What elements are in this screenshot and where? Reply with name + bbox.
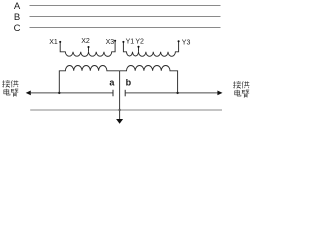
phase bus line A [30,5,221,7]
svg-text:B: B [14,12,20,23]
tap Y2 stub [138,47,140,52]
right feeder text 接供 [233,81,241,89]
junction dot left coil to feeder [58,92,60,94]
junction dot right coil to feeder [176,92,178,94]
ground arrow [116,119,123,124]
right feeder text 电臂 [235,90,241,96]
phase bus line C [30,27,221,29]
phase bus line B [30,16,221,18]
left feeder wire [30,92,113,94]
svg-text:Y2: Y2 [135,38,144,45]
right feeder wire [125,92,217,94]
terminal Y3 dot [178,40,180,42]
tap X2 dot [87,46,89,48]
svg-text:X3: X3 [106,39,115,46]
primary winding right section Y1-Y2-Y3 [123,41,178,56]
terminal X3 dot [114,40,116,42]
tap X2 stub [88,47,90,52]
secondary winding left section [59,66,119,93]
terminal a tick [112,90,114,97]
right feeder arrow [217,91,222,96]
svg-text:a: a [109,77,115,87]
svg-text:b: b [126,77,132,87]
rail / earth bus line [30,109,222,111]
svg-text:A: A [14,1,21,12]
terminal b tick [124,90,126,97]
primary winding left section X1-X2-X3 [60,41,115,57]
svg-text:Y3: Y3 [182,40,191,47]
left feeder arrow [26,91,31,96]
secondary winding right section [120,65,178,92]
terminal Y1 dot [122,41,124,43]
left feeder text 接供 [2,80,10,88]
left feeder text 电臂 [4,89,10,95]
terminal X1 dot [59,41,61,43]
svg-text:X2: X2 [81,38,90,45]
svg-text:C: C [14,23,21,34]
center tap earth conductor [119,71,121,120]
svg-text:X1: X1 [49,39,58,46]
svg-text:Y1: Y1 [126,38,135,45]
tap Y2 dot [137,46,139,48]
junction dot on rail line [118,109,120,111]
